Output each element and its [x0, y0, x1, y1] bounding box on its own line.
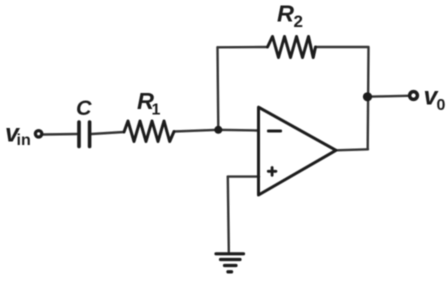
svg-text:0: 0 [437, 97, 446, 114]
svg-text:R: R [277, 1, 294, 27]
svg-text:C: C [76, 96, 92, 120]
svg-text:2: 2 [294, 12, 303, 31]
svg-text:1: 1 [152, 102, 161, 119]
svg-text:in: in [17, 132, 31, 149]
